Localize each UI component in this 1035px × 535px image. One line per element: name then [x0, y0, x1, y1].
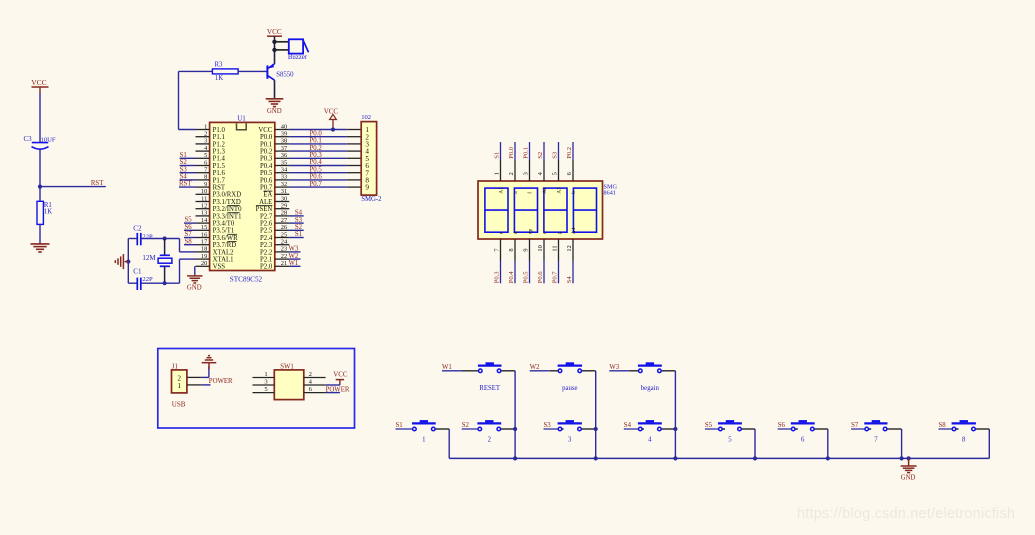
svg-text:P2.3: P2.3 [260, 242, 273, 249]
connector J1 USB [172, 363, 187, 408]
svg-text:P3.1/TXD: P3.1/TXD [213, 199, 241, 206]
junction left leg [126, 260, 130, 264]
wire bus to ground [908, 458, 910, 465]
svg-text:2: 2 [309, 371, 312, 378]
svg-text:S1: S1 [180, 152, 187, 159]
svg-text:R3: R3 [215, 61, 224, 68]
svg-text:P0.4: P0.4 [310, 159, 323, 166]
wire R3 to Q1 base [238, 70, 267, 72]
svg-text:C1: C1 [133, 267, 142, 275]
wire net P0.7 to connector pin 9 [289, 181, 361, 188]
ground GND (buzzer) [266, 99, 284, 115]
svg-text:6: 6 [801, 436, 805, 443]
svg-text:USB: USB [172, 401, 186, 409]
svg-text:P3.2/INT0: P3.2/INT0 [213, 206, 242, 213]
wire S1 vertical [448, 429, 450, 458]
svg-text:S2: S2 [180, 159, 188, 166]
svg-text:P0.5: P0.5 [523, 271, 530, 284]
pin 30 ALE [259, 195, 289, 206]
crystal Y1 12M [142, 239, 172, 284]
svg-text:P2.4: P2.4 [260, 235, 273, 242]
wire net P0.3 to connector pin 5 [289, 152, 361, 159]
capacitor C2 22P [133, 225, 153, 246]
net label POWER (J1) [209, 378, 233, 385]
display pin 12 net S4 [566, 227, 577, 283]
svg-text:22: 22 [281, 253, 287, 260]
pin 20 VSS [196, 260, 226, 271]
svg-text:1: 1 [204, 123, 207, 130]
display pin 5 net S3 [551, 142, 562, 194]
svg-text:pause: pause [562, 385, 577, 392]
svg-text:W2: W2 [530, 364, 540, 371]
wire S6 vertical [827, 429, 829, 458]
switch S5 (5) [705, 420, 755, 443]
net label S2 (pin 26) [289, 224, 303, 231]
svg-text:6: 6 [204, 159, 207, 166]
svg-text:P0.7: P0.7 [310, 181, 323, 188]
svg-text:P1.5: P1.5 [213, 163, 226, 170]
svg-text:P0.1: P0.1 [523, 147, 530, 159]
svg-text:A4: A4 [571, 227, 577, 234]
wire common bus [449, 457, 989, 459]
ground (crystal, rotated) [115, 254, 128, 269]
svg-text:S8550: S8550 [276, 72, 294, 79]
svg-text:2: 2 [488, 436, 492, 443]
pin 10 P3.0/RXD [196, 188, 242, 199]
pin 14 P3.4/T0 [196, 217, 235, 228]
svg-text:EA: EA [263, 192, 272, 199]
svg-text:P0.6: P0.6 [537, 271, 544, 284]
svg-text:W1: W1 [442, 364, 452, 371]
pin 4 P1.3 [196, 145, 226, 156]
junction bus [826, 456, 830, 460]
pin 22 P2.1 [260, 253, 289, 264]
power VCC (buzzer) [267, 28, 282, 36]
svg-text:P0.3: P0.3 [494, 271, 501, 284]
svg-text:XTAL2: XTAL2 [213, 249, 235, 256]
svg-text:22P: 22P [142, 233, 153, 240]
net label W1 (pin 21) [289, 260, 301, 267]
pin 16 P3.6/WR [196, 231, 239, 242]
svg-text:16: 16 [201, 231, 207, 238]
wire S7 vertical [901, 429, 903, 458]
wire VCC to Q1 emitter [274, 36, 276, 64]
wire R3 to P1.0 [179, 71, 213, 129]
pin 19 XTAL1 [196, 253, 234, 264]
svg-text:S4: S4 [180, 174, 188, 181]
display digit 2 outline [514, 188, 537, 232]
switch S4 (4) [624, 420, 676, 443]
switch S8 (8) [939, 420, 990, 443]
junction bus [907, 456, 911, 460]
display pin 6 net P0.2 [566, 142, 577, 194]
svg-text:18: 18 [201, 246, 207, 253]
svg-text:Buzzer: Buzzer [288, 54, 308, 61]
svg-text:9: 9 [204, 181, 207, 188]
svg-text:39: 39 [281, 131, 287, 138]
capacitor C3 10UF [24, 135, 56, 149]
wire SW1 pin6 POWER [326, 392, 340, 394]
pin 34 P0.5 [260, 167, 289, 178]
svg-text:PSEN: PSEN [256, 206, 273, 213]
display pin 11 net P0.7 [551, 231, 562, 283]
svg-text:P0.1: P0.1 [310, 138, 322, 145]
wire SW1 pin4 to VCC [326, 384, 340, 386]
svg-text:VCC: VCC [333, 370, 348, 378]
svg-text:P0.0: P0.0 [310, 130, 323, 137]
wire W2 vertical [595, 371, 597, 459]
display pin 3 net P0.1 [522, 142, 533, 194]
pin 11 P3.1/TXD [196, 195, 241, 206]
svg-text:7: 7 [874, 436, 878, 443]
pin 9 RST [196, 181, 226, 192]
designator STC89C52 [230, 275, 263, 283]
svg-text:S3: S3 [544, 422, 552, 429]
svg-text:C3: C3 [24, 135, 33, 143]
svg-text:13: 13 [201, 210, 207, 217]
pin 5 P1.4 [196, 152, 226, 163]
svg-text:P0.7: P0.7 [260, 185, 273, 192]
junction S3-W2 [594, 427, 598, 431]
svg-text:P0.2: P0.2 [566, 147, 573, 159]
switch W1 (RESET) [442, 362, 515, 392]
svg-text:12: 12 [201, 203, 207, 210]
svg-text:W1: W1 [289, 260, 299, 267]
svg-text:S6: S6 [778, 422, 786, 429]
pin 26 P2.5 [260, 224, 289, 235]
svg-text:P3.5/T1: P3.5/T1 [213, 228, 235, 235]
net label S6 (pin 15) [184, 224, 196, 231]
pin 29 PSEN [256, 203, 290, 214]
svg-text:25: 25 [281, 231, 287, 238]
svg-text:g: g [556, 231, 562, 234]
svg-text:102: 102 [361, 114, 371, 121]
pin 35 P0.4 [260, 159, 289, 170]
svg-text:W3: W3 [289, 246, 299, 253]
svg-text:S2: S2 [537, 152, 544, 159]
svg-text:24: 24 [281, 239, 288, 246]
svg-text:C2: C2 [133, 225, 142, 233]
svg-text:S3: S3 [552, 151, 559, 159]
display digit 3 outline [544, 188, 567, 232]
U1 notch [237, 123, 247, 130]
svg-text:12M: 12M [142, 254, 156, 262]
pin 2 P1.1 [196, 131, 225, 142]
svg-text:RST: RST [91, 180, 104, 187]
display pin 2 net P0.0 [508, 142, 519, 194]
svg-text:S8: S8 [185, 238, 193, 245]
net label S5 (pin 14) [184, 217, 196, 224]
svg-text:26: 26 [281, 224, 287, 231]
svg-text:S4: S4 [566, 276, 573, 284]
pin 1 P1.0 [196, 123, 226, 134]
svg-text:34: 34 [281, 167, 288, 174]
net label S2 (pin 6) [180, 159, 196, 166]
junction S2-W1 [513, 427, 517, 431]
wire net P0.0 to connector pin 2 [289, 130, 361, 137]
svg-text:P0.7: P0.7 [552, 271, 559, 284]
svg-text:A1: A1 [498, 187, 504, 194]
svg-text:S7: S7 [185, 231, 193, 238]
net label RST [91, 180, 104, 187]
net label S3 (pin 27) [289, 217, 303, 224]
pin 38 P0.1 [260, 138, 289, 149]
wire net P0.5 to connector pin 7 [289, 166, 361, 173]
svg-text:d: d [513, 231, 519, 234]
svg-text:dp: dp [527, 229, 533, 235]
connector 102 SMG-2 [361, 114, 382, 203]
sheet box (power section) [158, 349, 355, 429]
svg-text:P0.3: P0.3 [310, 152, 323, 159]
ground (reset divider) [31, 244, 50, 252]
wire crystal left leg [127, 239, 129, 284]
switch SW1 [253, 363, 326, 399]
svg-text:P0.5: P0.5 [260, 170, 273, 177]
wire net P0.1 to connector pin 3 [289, 138, 361, 145]
svg-text:3: 3 [204, 138, 207, 145]
svg-text:RST: RST [213, 185, 226, 192]
net label W2 (pin 22) [289, 253, 301, 260]
pin 31 EA [263, 188, 289, 199]
svg-text:23: 23 [281, 246, 287, 253]
svg-text:27: 27 [281, 217, 288, 224]
svg-text:15: 15 [201, 224, 207, 231]
display pin 4 net S2 [537, 142, 548, 194]
svg-text:17: 17 [201, 239, 208, 246]
svg-text:GND: GND [267, 108, 282, 115]
svg-text:P0.2: P0.2 [310, 145, 323, 152]
pin 27 P2.6 [260, 217, 289, 228]
svg-text:RST: RST [179, 181, 192, 188]
svg-text:22P: 22P [142, 276, 153, 283]
wire Q1 collector to ground [274, 80, 276, 98]
svg-text:P2.6: P2.6 [260, 221, 273, 228]
svg-text:U1: U1 [237, 115, 246, 123]
wire J1 pin1 POWER [187, 384, 211, 386]
transistor Q1 S8550 [267, 64, 294, 81]
wire VCC to C3 [39, 93, 41, 142]
svg-text:XTAL1: XTAL1 [213, 257, 234, 264]
junction bus [594, 456, 598, 460]
svg-text:VCC: VCC [324, 108, 339, 116]
wire W3 vertical [674, 371, 676, 459]
svg-text:S4: S4 [624, 422, 632, 429]
svg-text:begain: begain [641, 385, 660, 392]
pin 3 P1.2 [196, 138, 226, 149]
svg-text:11: 11 [551, 245, 558, 251]
svg-text:P1.7: P1.7 [213, 177, 226, 184]
svg-text:40: 40 [281, 123, 287, 130]
svg-text:3: 3 [522, 172, 529, 175]
junction crystal top [163, 236, 167, 240]
svg-text:10UF: 10UF [41, 137, 56, 144]
svg-text:P3.0/RXD: P3.0/RXD [213, 192, 242, 199]
svg-text:P2.2: P2.2 [260, 249, 273, 256]
pin 39 P0.0 [260, 131, 289, 142]
wire VSS to ground [194, 266, 196, 275]
svg-text:1K: 1K [44, 209, 52, 216]
wire net P0.2 to connector pin 4 [289, 145, 361, 152]
wire R1 to ground [39, 224, 41, 243]
svg-text:S7: S7 [851, 422, 859, 429]
svg-text:P0.6: P0.6 [310, 174, 323, 181]
pin 15 P3.5/T1 [196, 224, 235, 235]
pin 18 XTAL2 [196, 246, 235, 257]
power VCC (P0 pull) [324, 108, 339, 130]
svg-text:P2.5: P2.5 [260, 228, 273, 235]
wire XTAL1 net bottom [128, 259, 195, 283]
resistor R3 1K [212, 61, 238, 82]
pin 17 P3.7/RD [196, 239, 237, 250]
wire net P0.4 to connector pin 6 [289, 159, 361, 166]
svg-text:SMG-2: SMG-2 [361, 196, 382, 203]
display pin 9 net P0.5 [522, 229, 533, 284]
svg-text:S1: S1 [396, 422, 403, 429]
wire node to RST label [40, 186, 106, 188]
svg-text:A3: A3 [556, 187, 562, 194]
switch S1 (1) [396, 420, 450, 443]
net label RST (pin 9) [179, 181, 196, 188]
net label S8 (pin 17) [184, 238, 196, 245]
svg-text:30: 30 [281, 195, 287, 202]
svg-text:S1: S1 [494, 152, 501, 159]
resistor R1 1K [37, 201, 52, 224]
svg-text:GND: GND [187, 284, 202, 291]
switch S3 (3) [544, 420, 596, 443]
pin 25 P2.4 [260, 231, 289, 242]
power VCC (reset divider) [31, 78, 48, 93]
svg-text:P0.2: P0.2 [260, 149, 273, 156]
pin 13 P3.3/INT1 [196, 210, 242, 221]
svg-text:10: 10 [537, 245, 544, 251]
svg-text:29: 29 [281, 203, 287, 210]
svg-text:9: 9 [522, 248, 529, 251]
svg-text:P0.0: P0.0 [260, 134, 273, 141]
pin 6 P1.5 [196, 159, 226, 170]
svg-text:38: 38 [281, 138, 287, 145]
pin 28 P2.7 [260, 210, 289, 221]
ground GND (VSS) [187, 276, 203, 291]
junction bus [673, 456, 677, 460]
svg-text:9: 9 [365, 184, 369, 192]
display pin 10 net P0.6 [537, 231, 548, 283]
svg-text:W3: W3 [609, 364, 619, 371]
svg-text:P2.1: P2.1 [260, 257, 272, 264]
svg-text:VCC: VCC [31, 78, 46, 87]
pin 37 P0.2 [260, 145, 289, 156]
wire J1 pin2 to ground [187, 367, 209, 378]
svg-text:6: 6 [566, 172, 573, 175]
svg-text:P3.3/INT1: P3.3/INT1 [213, 213, 242, 220]
svg-text:S3: S3 [180, 166, 188, 173]
svg-text:S3: S3 [295, 217, 303, 224]
junction buzzer pin 1 [272, 40, 276, 44]
svg-text:1: 1 [264, 371, 267, 378]
net label W3 (pin 23) [289, 246, 301, 253]
pin 36 P0.3 [260, 152, 289, 163]
net label POWER (SW1 pin6) [326, 386, 350, 393]
pin 8 P1.7 [196, 174, 226, 185]
junction VCC on pin40 wire [331, 127, 335, 131]
svg-text:19: 19 [201, 253, 207, 260]
wire to buzzer pin 1 [275, 41, 289, 43]
svg-text:21: 21 [281, 260, 287, 267]
wire C3 to node RST [39, 150, 41, 202]
svg-text:RESET: RESET [479, 385, 501, 392]
svg-text:5: 5 [728, 436, 732, 443]
switch S6 (6) [778, 420, 828, 443]
net label S1 (pin 5) [180, 152, 196, 159]
display DS1 SMG 8641 body [478, 181, 617, 239]
wire to buzzer pin 2 [275, 49, 289, 51]
switch S7 (7) [851, 420, 902, 443]
net label S1 (pin 25) [289, 231, 303, 238]
svg-text:S8: S8 [939, 422, 947, 429]
pin 12 P3.2/INT0 [196, 203, 243, 214]
svg-text:P3.7/RD: P3.7/RD [213, 242, 237, 249]
svg-text:POWER: POWER [209, 378, 233, 385]
svg-text:P0.4: P0.4 [508, 271, 515, 284]
svg-text:1: 1 [493, 172, 500, 175]
svg-text:20: 20 [201, 260, 207, 267]
svg-text:P0.6: P0.6 [260, 177, 273, 184]
svg-text:P0.1: P0.1 [260, 141, 272, 148]
svg-text:A2: A2 [542, 187, 548, 194]
svg-text:37: 37 [281, 145, 288, 152]
buzzer LS1 [288, 39, 309, 61]
svg-text:3: 3 [568, 436, 572, 443]
svg-text:S5: S5 [705, 422, 713, 429]
svg-text:P1.6: P1.6 [213, 170, 226, 177]
junction S4-W3 [673, 427, 677, 431]
net label S4 (pin 28) [289, 210, 303, 217]
svg-text:VSS: VSS [213, 264, 226, 271]
svg-text:P2.0: P2.0 [260, 264, 273, 271]
display digit 4 outline [573, 188, 596, 232]
svg-text:P1.1: P1.1 [213, 134, 225, 141]
wire S5 vertical [754, 429, 756, 458]
pin 24 P2.3 [260, 239, 289, 250]
net label S3 (pin 7) [180, 166, 196, 173]
svg-text:b: b [571, 191, 577, 194]
svg-text:P0.0: P0.0 [508, 146, 515, 159]
junction bus [900, 456, 904, 460]
svg-text:P0.3: P0.3 [260, 156, 273, 163]
capacitor C1 22P [133, 267, 153, 290]
svg-text:36: 36 [281, 152, 287, 159]
svg-text:1K: 1K [215, 75, 223, 82]
svg-text:S6: S6 [185, 224, 193, 231]
svg-text:28: 28 [281, 210, 287, 217]
junction bus [513, 456, 517, 460]
svg-text:8: 8 [204, 174, 207, 181]
svg-text:P2.7: P2.7 [260, 213, 273, 220]
svg-text:8: 8 [508, 248, 515, 251]
switch S2 (2) [462, 420, 515, 443]
junction crystal bottom [163, 281, 167, 285]
junction bus [753, 456, 757, 460]
svg-text:P1.2: P1.2 [213, 141, 226, 148]
svg-text:5: 5 [204, 152, 207, 159]
svg-text:S4: S4 [295, 210, 303, 217]
pin 40 VCC [258, 123, 289, 134]
svg-text:S2: S2 [462, 422, 470, 429]
svg-text:VCC: VCC [267, 28, 282, 36]
op-amp U1 body (IC STC89C52) [210, 122, 275, 270]
svg-text:8641: 8641 [604, 190, 616, 197]
junction buzzer pin 2 [272, 48, 276, 52]
svg-text:S2: S2 [295, 224, 303, 231]
